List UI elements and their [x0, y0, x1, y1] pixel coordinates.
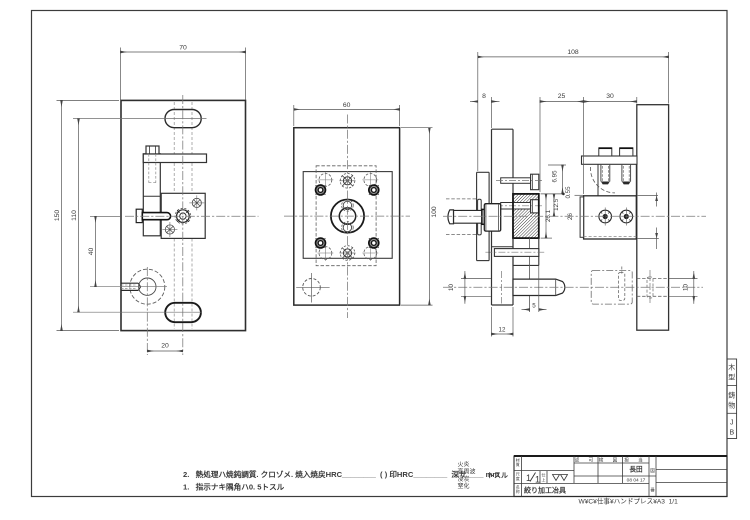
dim 30 [584, 97, 637, 104]
dim 10 right [669, 271, 698, 304]
svg-text:26: 26 [567, 213, 574, 220]
flange bolt head A [599, 148, 612, 156]
hidden groove line right [191, 102, 193, 154]
rod horizontal centerline [443, 286, 703, 288]
thumb screw head [448, 210, 454, 224]
svg-text:2. 熱処理ハ焼鈍調質. クロゾメ. 焼入焼戻HRC__: 2. 熱処理ハ焼鈍調質. クロゾメ. 焼入焼戻HRC________ ( ) 印… [183, 469, 499, 479]
svg-text:20: 20 [161, 343, 169, 350]
dim 8 [470, 97, 500, 128]
svg-text:5: 5 [532, 303, 536, 310]
hanger bracket bottom [477, 260, 490, 262]
svg-text:窒化: 窒化 [458, 482, 470, 490]
top slot centerline [73, 118, 207, 120]
dim 10 left [461, 271, 491, 304]
title block top thick line [514, 455, 727, 457]
arm bolt hidden shaft [148, 154, 150, 183]
web fillet arc [590, 167, 615, 193]
clamp washer dark band [482, 209, 484, 224]
dim 70 [121, 48, 246, 101]
hidden thread below center [342, 222, 354, 234]
bolt head SHCS BL [315, 237, 327, 249]
lower column centerline [501, 271, 503, 304]
block height dim ext bottom [638, 237, 659, 239]
svg-text:6.95: 6.95 [552, 170, 559, 183]
finish marks [553, 475, 568, 481]
top slot [165, 110, 201, 128]
grid horizontals [514, 463, 727, 483]
svg-text:W¥C¥仕事¥ハント゚プレス¥A3 1/1: W¥C¥仕事¥ハント゚プレス¥A3 1/1 [579, 497, 679, 506]
corner hidden hole BR [362, 245, 378, 261]
nut block [484, 204, 500, 231]
hidden slot in P3 [647, 277, 653, 298]
die plate P2 outline [513, 194, 539, 238]
back plate P3 [637, 105, 669, 331]
svg-text:絞り加工冶具: 絞り加工冶具 [524, 485, 566, 494]
block height dim ext top [638, 195, 658, 197]
center bore outer [331, 200, 364, 233]
washer plate [478, 199, 482, 235]
dim 6.95 [548, 165, 566, 194]
center bore inner [339, 208, 355, 224]
svg-text:火炎: 火炎 [458, 462, 470, 469]
svg-text:12: 12 [499, 327, 506, 334]
main plate P1 right edge [512, 129, 514, 305]
dim 110 [78, 119, 80, 313]
hanger bracket top [477, 171, 490, 173]
svg-text:0.55: 0.55 [565, 186, 572, 199]
side label box [727, 359, 737, 439]
stop pin centerline [485, 251, 544, 253]
dim 20 [147, 350, 183, 352]
clamp bolt centerline [125, 215, 259, 217]
column joint line [143, 195, 160, 197]
svg-text:08 04 17: 08 04 17 [627, 478, 646, 484]
svg-text:検 図: 検 図 [599, 457, 621, 464]
svg-text:60: 60 [343, 102, 351, 109]
base plate outline [121, 100, 246, 330]
set screw pin [121, 283, 141, 290]
svg-text:高周波: 高周波 [458, 468, 476, 476]
svg-text:鋳: 鋳 [728, 391, 735, 400]
clamp block [161, 193, 205, 238]
P2 lower part below hatch [512, 238, 514, 265]
plate vertical centerline [182, 95, 184, 355]
svg-text:10: 10 [448, 284, 455, 291]
svg-text:10: 10 [683, 284, 690, 291]
svg-text:B: B [729, 430, 734, 437]
svg-text:質: 質 [516, 461, 520, 467]
bracket web right [635, 164, 637, 196]
bolt head SHCS BR [368, 237, 380, 249]
title block outer [514, 456, 727, 497]
bottom slot [165, 303, 201, 322]
corner hidden hole TR [362, 172, 378, 188]
svg-text:トスル: トスル [487, 472, 508, 480]
side bolt head [136, 209, 142, 222]
dim 40 [90, 216, 122, 286]
main plate P1 bottom [492, 304, 514, 306]
svg-text:1: 1 [535, 475, 540, 485]
block hole top-right [189, 195, 204, 210]
rod hidden lines through P3 [637, 278, 669, 280]
bracket web left [597, 164, 599, 196]
svg-text:25: 25 [558, 93, 566, 100]
dim 25 [540, 97, 584, 194]
svg-text:40: 40 [88, 248, 95, 256]
flange bolt shaft A [601, 165, 610, 185]
thumb screw shaft [454, 210, 482, 223]
svg-text:70: 70 [179, 45, 187, 52]
svg-text:木: 木 [728, 363, 735, 372]
svg-text:1. 指示ナキ隅角ハ0. 5トスル: 1. 指示ナキ隅角ハ0. 5トスル [183, 482, 285, 492]
side bolt shaft [142, 213, 170, 220]
svg-text:物: 物 [728, 401, 735, 410]
bolt head SHCS TR [368, 184, 380, 196]
svg-text:上: 上 [542, 476, 546, 482]
horizontal centerline [284, 215, 410, 217]
flange bolt shaft B [622, 165, 631, 185]
rod end vertical line [555, 279, 557, 295]
hidden washer lines [446, 198, 477, 200]
bolt head SHCS TL [315, 184, 327, 196]
hub circle crosshair [90, 286, 167, 288]
block height dim line top [656, 193, 658, 207]
svg-text:型: 型 [728, 373, 735, 382]
hanger bracket right edge [488, 172, 490, 260]
dim 108 [478, 52, 669, 171]
vertical centerline [347, 115, 349, 319]
phantom inner pin [618, 272, 624, 300]
block top ext line [575, 194, 584, 196]
svg-text:称: 称 [516, 488, 520, 494]
mounting square [303, 172, 392, 259]
hidden groove line left [173, 102, 175, 154]
svg-text:番: 番 [650, 487, 655, 494]
dim 150 [57, 100, 120, 330]
dim 0.55 [541, 193, 564, 195]
main plate P1 step line [492, 246, 514, 248]
hub bore circle [139, 278, 156, 295]
svg-text:度: 度 [516, 475, 520, 481]
slide block end cap [580, 197, 584, 237]
internal edge line [529, 238, 531, 312]
svg-text:J: J [730, 420, 734, 427]
bottom slot centerline [73, 311, 202, 313]
flange bolt head B [620, 148, 633, 156]
hidden hub circle [130, 269, 165, 304]
corner pin hole bottom-left [296, 273, 329, 303]
block screw right [620, 208, 633, 226]
dim 26.1 [541, 194, 552, 238]
svg-text:認 可: 認 可 [575, 457, 597, 464]
corner hidden hole BL [317, 245, 333, 261]
hidden thread above center [342, 200, 354, 212]
guide rod [513, 279, 565, 295]
phantom part box [591, 271, 632, 305]
arm bolt head [146, 146, 159, 154]
svg-text:12.5: 12.5 [553, 198, 560, 211]
svg-text:8: 8 [482, 93, 486, 100]
block center tapped hole [175, 208, 191, 224]
dim 12.5 [553, 194, 555, 216]
svg-text:担 当: 担 当 [624, 457, 646, 464]
svg-text:30: 30 [606, 93, 614, 100]
SHCS bolt B1 [496, 174, 543, 190]
block screw left [599, 208, 612, 226]
block height dim line bottom [656, 228, 658, 250]
svg-text:長田: 長田 [629, 464, 643, 473]
clamp column [143, 154, 160, 236]
svg-text:150: 150 [54, 210, 61, 222]
hidden sub-plate rectangle [316, 166, 376, 266]
svg-text:浸炭: 浸炭 [458, 475, 470, 483]
svg-text:110: 110 [71, 210, 78, 221]
main plate P1 left edge [491, 129, 493, 305]
grid verticals [522, 456, 656, 497]
upper bracket flange [582, 156, 638, 164]
svg-text:26.1: 26.1 [545, 209, 552, 222]
corner hidden hole TL [317, 172, 333, 188]
block hidden line above bottom [584, 235, 637, 237]
stop pin [494, 249, 538, 257]
P3 vertical center dash [649, 270, 651, 305]
dim 5 [522, 265, 547, 312]
svg-text:100: 100 [431, 206, 438, 218]
dim 60 [294, 105, 400, 126]
main horizontal centerline [443, 215, 706, 217]
dim 12 [492, 307, 514, 337]
hanger bracket left edge [476, 172, 478, 260]
middle plate outline [294, 128, 400, 305]
dim 100 [401, 128, 433, 305]
clamp arm [143, 154, 206, 163]
tapped hole bottom-center [340, 246, 356, 261]
main plate P1 top [492, 128, 514, 130]
svg-text:108: 108 [567, 49, 579, 56]
tapped hole top-center [340, 174, 356, 189]
SHCS bolt B2 white cutout [496, 200, 543, 213]
die plate P2 hatched section [513, 194, 539, 238]
block hole bottom-left [162, 222, 177, 237]
slide block [584, 196, 637, 239]
